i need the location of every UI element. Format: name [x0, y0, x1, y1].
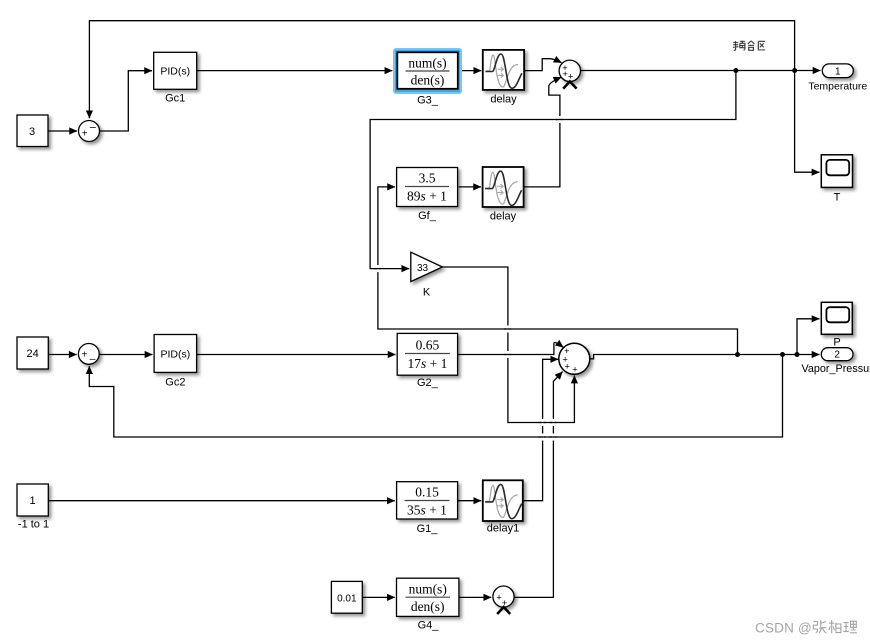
svg-text:Gc1: Gc1 [165, 93, 185, 105]
svg-text:delay: delay [490, 94, 517, 106]
wire 24 to sumP [48, 354, 76, 356]
svg-text:CSDN @: CSDN @ [755, 621, 812, 636]
svg-text:Gf_: Gf_ [418, 210, 437, 222]
svg-text:G3_: G3_ [417, 95, 439, 107]
svg-text:Gc2: Gc2 [165, 377, 185, 389]
constant block 0.01 [331, 581, 362, 613]
wire G3_ to delay [461, 70, 481, 72]
wire 3 to sumT [48, 130, 77, 132]
transfer fcn G2_ [397, 333, 457, 375]
transport delay block middle [483, 167, 524, 207]
junction node temperature-coupling [733, 68, 738, 73]
wire delay to sum1 [524, 59, 561, 71]
svg-text:den(s): den(s) [411, 73, 445, 88]
svg-text:24: 24 [26, 348, 38, 360]
transfer fcn G3_ selected [394, 49, 461, 93]
svg-text:den(s): den(s) [411, 599, 445, 614]
wire branch to scope P [797, 319, 819, 355]
svg-text:+: + [572, 365, 578, 376]
svg-text:89s + 1: 89s + 1 [407, 189, 447, 204]
svg-text:+: + [81, 349, 87, 360]
wire Gc1 to G3_ [197, 70, 393, 72]
wire 0.01 to G4_ [362, 596, 395, 598]
svg-text:PID(s): PID(s) [161, 349, 191, 361]
sum junction sum3 [493, 586, 514, 609]
sum junction sum1 [559, 60, 580, 82]
svg-text:0.65: 0.65 [416, 338, 440, 353]
transfer fcn Gf_ [397, 168, 458, 207]
wire G1_ to delay1 [458, 500, 482, 502]
unconnected port chevron sum3 [497, 607, 510, 614]
transport delay block top [483, 50, 524, 90]
svg-text:3: 3 [29, 126, 35, 138]
wire sum1 to Temperature outport [581, 70, 821, 72]
constant block 3 [17, 115, 48, 147]
svg-text:G2_: G2_ [417, 377, 439, 389]
junction node vapor-scope [795, 352, 800, 357]
junction node vapor-coupling [735, 352, 740, 357]
svg-text:17s + 1: 17s + 1 [407, 356, 447, 371]
sum junction sumT [79, 121, 100, 142]
wire sum3 to sum2 lowerleft [514, 372, 563, 598]
junction node vapor-feedback [780, 352, 785, 357]
wire sumT to Gc1 [100, 71, 153, 131]
constant block 1 [17, 484, 48, 516]
svg-text:35s + 1: 35s + 1 [407, 503, 447, 518]
svg-text:T: T [834, 192, 841, 204]
gain K [411, 252, 443, 281]
svg-text:delay1: delay1 [487, 523, 519, 535]
svg-text:G1_: G1_ [417, 523, 439, 535]
svg-text:+: + [82, 129, 88, 140]
wire delay1 to sum2 left [523, 359, 558, 500]
svg-text:3.5: 3.5 [419, 171, 436, 186]
wire sumP to Gc2 [99, 354, 152, 356]
svg-text:+: + [564, 361, 570, 372]
svg-text:Vapor_Pressure: Vapor_Pressure [802, 363, 870, 375]
sum junction sumP [78, 344, 99, 366]
scope T [821, 155, 852, 188]
unconnected port chevron sum1 [563, 81, 576, 88]
svg-text:2: 2 [834, 350, 840, 361]
svg-text:P: P [833, 337, 840, 349]
sum junction sum2 [559, 343, 590, 375]
svg-text:delay: delay [490, 211, 517, 223]
PID controller Gc2 [154, 335, 197, 373]
wire branch down to gain K [370, 71, 736, 269]
svg-text:K: K [423, 287, 431, 299]
svg-text:33: 33 [417, 263, 429, 274]
svg-text:–: – [90, 121, 97, 133]
watermark CSDN [755, 620, 857, 636]
wire coupling riser to Gf_ [378, 187, 738, 355]
wire G4_ to sum3 [459, 596, 491, 598]
wire crossing hops [374, 116, 563, 441]
wire sum2 output to Vapor outport [590, 355, 820, 359]
outport Vapor_Pressure [821, 348, 853, 361]
svg-text:0.01: 0.01 [337, 593, 357, 604]
svg-text:1: 1 [835, 66, 841, 77]
transfer fcn G4_ [397, 578, 459, 616]
junction node temperature-feedback [792, 68, 797, 73]
wire Gc2 to G2_ [197, 354, 396, 356]
wire Gf_ to delayM [459, 186, 481, 188]
outport Temperature [822, 64, 853, 78]
svg-text:num(s): num(s) [408, 56, 446, 71]
svg-text:–: – [90, 353, 96, 365]
svg-text:0.15: 0.15 [415, 485, 439, 500]
wire pressure feedback to sumP [89, 355, 782, 438]
transfer fcn G1_ [397, 482, 458, 519]
wire branch to scope T [795, 71, 820, 173]
svg-text:num(s): num(s) [409, 582, 447, 597]
PID controller Gc1 [154, 52, 197, 89]
wire 1 to G1_ [48, 500, 395, 502]
constant block 24 [17, 337, 48, 369]
svg-text:1: 1 [30, 495, 36, 507]
text coupling area [733, 41, 765, 50]
scope P [821, 302, 852, 334]
svg-text:PID(s): PID(s) [160, 66, 190, 78]
wire temperature feedback top [89, 21, 794, 119]
svg-text:-1 to 1: -1 to 1 [18, 519, 49, 531]
wire delayM to sum1 lower [524, 77, 562, 187]
transport delay block delay1 [483, 480, 523, 521]
svg-text:Temperature: Temperature [808, 81, 867, 93]
wire G2_ to sum2 topleft [458, 342, 564, 354]
svg-text:G4_: G4_ [418, 620, 440, 632]
wire gain K to sum2 bottom [442, 267, 574, 423]
